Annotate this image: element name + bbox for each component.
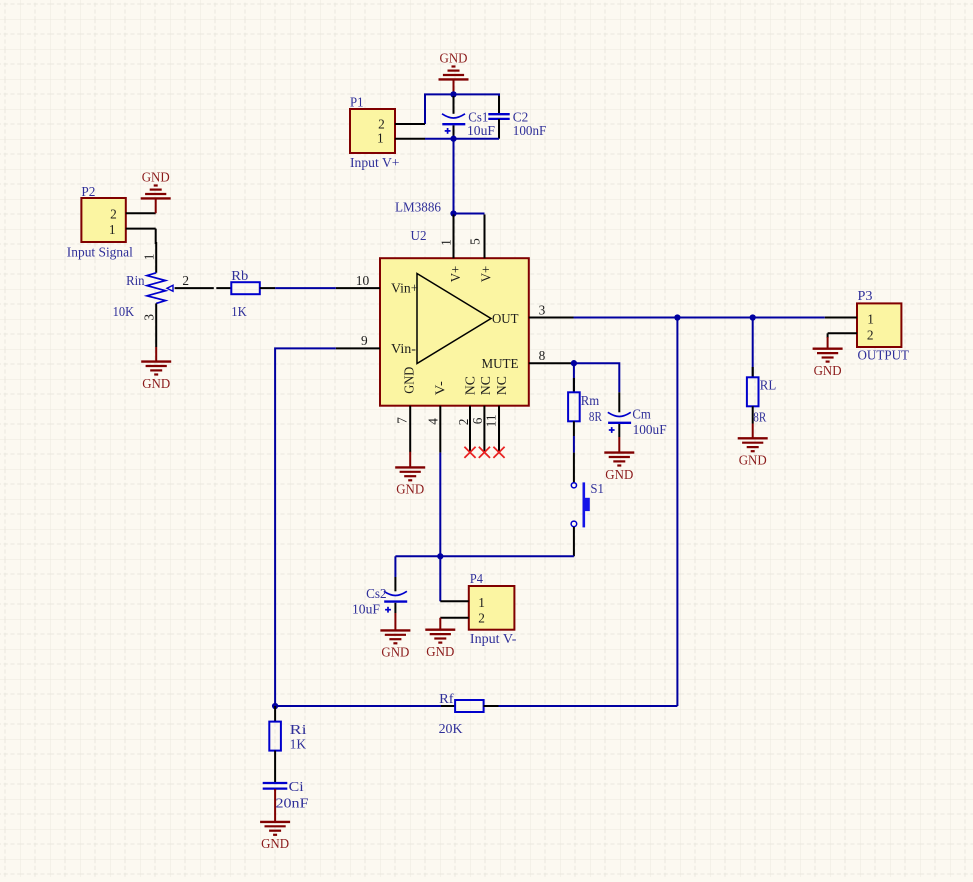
svg-text:2: 2 <box>478 610 485 625</box>
junction top rail / GND <box>450 91 456 97</box>
svg-text:1: 1 <box>867 311 874 326</box>
wire feedback bottom left <box>275 705 441 707</box>
wire U2 pin 9 to feedback node <box>275 348 336 706</box>
capacitor Cs1 <box>442 96 465 138</box>
capacitor C2 <box>488 96 509 139</box>
pin number 1 of Rin <box>141 254 156 261</box>
connector P2 <box>81 198 155 242</box>
junction Cs1 bottom rail <box>450 136 456 142</box>
no-connect mark pin 11 <box>493 447 504 458</box>
pin number 1 of P4 <box>478 595 485 610</box>
svg-text:5: 5 <box>468 238 483 245</box>
svg-text:11: 11 <box>484 414 499 427</box>
comment LM3886 <box>395 199 441 214</box>
svg-text:GND: GND <box>142 376 170 391</box>
resistor Rf <box>441 700 499 712</box>
op-amp U2 LM3886 body <box>380 258 529 406</box>
wire bottom V+ rail <box>425 138 499 140</box>
pin number 2 of P1 <box>378 117 385 132</box>
designator RL <box>760 377 777 392</box>
designator P1 <box>350 95 364 110</box>
node V+ pins split <box>450 210 484 216</box>
ground GND at Rin pin 3 <box>141 347 171 391</box>
value 10uF of Cs2 <box>352 602 380 617</box>
ground GND at Ci <box>260 789 290 851</box>
ground GND at P2 pin 2 <box>141 169 171 213</box>
label C2 <box>513 109 529 124</box>
designator Rf <box>439 691 454 706</box>
designator Ri <box>290 722 307 737</box>
svg-text:MUTE: MUTE <box>482 356 519 371</box>
svg-text:1: 1 <box>377 130 384 145</box>
value 8R of Rm <box>589 409 602 424</box>
svg-text:20K: 20K <box>439 721 463 736</box>
svg-text:GND: GND <box>142 169 170 184</box>
junction OUT / feedback <box>674 314 680 320</box>
svg-text:10uF: 10uF <box>467 123 495 138</box>
svg-text:100uF: 100uF <box>633 422 667 437</box>
pin 6 NC of U2 <box>483 406 485 452</box>
pin number 2 of P3 <box>867 327 874 342</box>
svg-text:GND: GND <box>381 645 409 660</box>
ground GND at RL <box>738 424 768 468</box>
value 10K of Rin <box>113 304 135 319</box>
svg-text:9: 9 <box>361 333 368 348</box>
pin number 2 of Rin <box>182 273 189 288</box>
junction OUT / RL <box>750 314 756 320</box>
capacitor Ci <box>263 783 288 791</box>
value 100uF of Cm <box>633 422 667 437</box>
pin name GND (U2) <box>401 366 416 393</box>
no-connect mark pin 6 <box>479 447 490 458</box>
svg-text:Rf: Rf <box>439 691 454 706</box>
svg-text:P1: P1 <box>350 95 364 110</box>
wire S1 to V- net <box>395 555 574 557</box>
pin name NC (pin6) <box>478 376 493 395</box>
designator Rin <box>126 273 145 288</box>
designator P3 <box>858 288 873 303</box>
svg-text:Ci: Ci <box>289 779 304 794</box>
value 10uF of Cs1 <box>467 123 495 138</box>
pin name Vin- <box>391 341 416 356</box>
svg-text:OUTPUT: OUTPUT <box>858 347 910 362</box>
wire P2 pin1 to Rin <box>155 229 158 273</box>
pin 10 Vin+ of U2 <box>336 287 380 289</box>
label Cs1 <box>468 109 488 124</box>
svg-text:Rm: Rm <box>581 393 600 408</box>
svg-text:GND: GND <box>426 644 454 659</box>
designator Cm <box>632 406 651 421</box>
value 20K of Rf <box>439 721 463 736</box>
pin number 2 of P4 <box>478 610 485 625</box>
svg-text:10uF: 10uF <box>352 602 380 617</box>
designator S1 <box>590 481 604 496</box>
ground GND at Cs2 <box>380 613 410 660</box>
label Input V+ <box>350 155 400 170</box>
svg-text:3: 3 <box>539 302 546 317</box>
junction feedback / Ri <box>272 703 278 709</box>
svg-text:GND: GND <box>739 453 767 468</box>
pin name V- <box>433 381 448 395</box>
svg-text:Ri: Ri <box>290 722 307 737</box>
pin name V+ (pin5) <box>478 266 493 283</box>
value 8R of RL <box>753 409 766 424</box>
svg-text:2: 2 <box>182 273 189 288</box>
svg-text:NC: NC <box>478 376 493 395</box>
designator P2 <box>81 184 95 199</box>
pin number 11 of U2 <box>484 414 499 427</box>
wire OUT net <box>574 317 825 319</box>
designator Ci <box>289 779 304 794</box>
svg-text:1K: 1K <box>290 736 307 751</box>
pin number 1 of P1 <box>377 130 384 145</box>
svg-text:Input V+: Input V+ <box>350 155 400 170</box>
pin number 10 of U2 <box>356 273 370 288</box>
pin number 9 of U2 <box>361 333 368 348</box>
svg-text:U2: U2 <box>411 228 427 243</box>
ground GND (top, net V+ rail) <box>439 50 469 94</box>
resistor Rb <box>216 282 275 294</box>
wire U2 pin 4 V- drop <box>439 453 441 602</box>
pin number 1 of P3 <box>867 311 874 326</box>
pin number 2 of P2 <box>110 206 117 221</box>
svg-text:1: 1 <box>478 595 485 610</box>
value 20nF of Ci <box>276 796 309 811</box>
svg-text:1K: 1K <box>231 304 247 319</box>
pin name Vin+ <box>391 281 419 296</box>
pin number 1 of U2 <box>439 239 454 246</box>
potentiometer Rin <box>147 273 214 347</box>
svg-text:Input Signal: Input Signal <box>67 244 133 259</box>
connector P1 <box>350 109 425 153</box>
pin 2 NC of U2 <box>469 406 471 452</box>
svg-text:7: 7 <box>394 417 409 424</box>
resistor Rm <box>568 363 580 452</box>
pin 8 MUTE of U2 <box>529 362 574 364</box>
svg-text:OUT: OUT <box>492 311 519 326</box>
svg-text:V+: V+ <box>448 266 463 283</box>
pin number 4 of U2 <box>426 418 441 425</box>
svg-text:Vin-: Vin- <box>391 341 416 356</box>
designator Rb <box>231 268 248 283</box>
ground GND at P3 pin 2 <box>813 337 843 378</box>
wire feedback drop <box>676 318 678 707</box>
no-connect mark pin 2 <box>464 447 475 458</box>
svg-text:Cm: Cm <box>632 406 651 421</box>
svg-text:1: 1 <box>439 239 454 246</box>
pin name NC (pin11) <box>494 376 509 395</box>
svg-text:P4: P4 <box>470 571 483 586</box>
pin number 2 of U2 <box>456 419 471 426</box>
svg-text:GND: GND <box>440 50 468 65</box>
connector P4 <box>440 586 514 630</box>
pin number 5 of U2 <box>468 238 483 245</box>
junction MUTE / Rm <box>571 360 577 366</box>
pin number 1 of P2 <box>109 222 116 237</box>
svg-text:V-: V- <box>433 381 448 395</box>
designator Cs2 <box>366 586 387 601</box>
svg-text:1: 1 <box>141 254 156 261</box>
svg-text:2: 2 <box>456 419 471 426</box>
wire feedback bottom right <box>499 705 678 707</box>
svg-text:2: 2 <box>110 206 117 221</box>
svg-text:4: 4 <box>426 418 441 425</box>
designator Rm <box>581 393 600 408</box>
svg-text:RL: RL <box>760 377 777 392</box>
svg-text:20nF: 20nF <box>276 796 309 811</box>
resistor Ri <box>269 706 281 782</box>
capacitor Cs2 <box>384 556 407 613</box>
svg-text:P2: P2 <box>81 184 95 199</box>
capacitor Cm <box>608 392 631 437</box>
svg-text:NC: NC <box>494 376 509 395</box>
svg-text:10K: 10K <box>113 304 135 319</box>
resistor RL <box>747 318 759 424</box>
svg-text:Rb: Rb <box>231 268 248 283</box>
value 1K of Rb <box>231 304 247 319</box>
switch S1 <box>571 453 590 557</box>
pin 3 OUT of U2 <box>529 317 574 319</box>
svg-text:S1: S1 <box>590 481 604 496</box>
designator U2 <box>411 228 427 243</box>
wire Rb to U2 pin 10 <box>275 287 336 289</box>
svg-text:10: 10 <box>356 273 370 288</box>
wire MUTE net <box>574 363 619 392</box>
pin name MUTE <box>482 356 519 371</box>
svg-text:Input V-: Input V- <box>470 631 517 646</box>
pin 7 GND of U2 <box>409 406 411 453</box>
label Input Signal <box>67 244 133 259</box>
svg-text:P3: P3 <box>858 288 873 303</box>
svg-text:1: 1 <box>109 222 116 237</box>
svg-text:NC: NC <box>463 376 478 395</box>
svg-text:8: 8 <box>539 348 546 363</box>
wire V+ drop to U2 <box>453 139 455 214</box>
pin number 7 of U2 <box>394 417 409 424</box>
svg-text:LM3886: LM3886 <box>395 199 441 214</box>
pin 11 NC of U2 <box>498 406 500 452</box>
label Input V- <box>470 631 517 646</box>
svg-text:GND: GND <box>401 366 416 393</box>
svg-text:Vin+: Vin+ <box>391 281 419 296</box>
junction V- / S1 wire <box>437 553 443 559</box>
svg-text:V+: V+ <box>478 266 493 283</box>
pin 1 V+ of U2 <box>453 215 455 259</box>
wire top rail V+ <box>425 94 499 124</box>
ground GND at P4 pin 2 <box>425 618 455 659</box>
pin number 8 of U2 <box>539 348 546 363</box>
svg-text:3: 3 <box>141 314 156 321</box>
pin 9 Vin- of U2 <box>336 347 380 349</box>
svg-text:Rin: Rin <box>126 273 145 288</box>
svg-text:100nF: 100nF <box>513 123 547 138</box>
svg-text:GND: GND <box>605 467 633 482</box>
value 100nF of C2 <box>513 123 547 138</box>
pin 5 V+ of U2 <box>484 215 486 259</box>
svg-text:2: 2 <box>867 327 874 342</box>
connector P3 <box>825 303 902 347</box>
value 1K of Ri <box>290 736 307 751</box>
ground GND at U2 pin 7 <box>395 452 425 497</box>
svg-text:Cs2: Cs2 <box>366 586 387 601</box>
ground GND at Cm <box>604 437 634 482</box>
pin 4 V- of U2 <box>439 406 441 453</box>
svg-text:GND: GND <box>261 836 289 851</box>
pin name OUT <box>492 311 519 326</box>
pin number 3 of U2 <box>539 302 546 317</box>
label OUTPUT <box>858 347 910 362</box>
pin name V+ (pin1) <box>448 266 463 283</box>
svg-text:GND: GND <box>396 482 424 497</box>
pin number 3 of Rin <box>141 314 156 321</box>
svg-text:8R: 8R <box>753 409 766 424</box>
svg-text:8R: 8R <box>589 409 602 424</box>
pin name NC (pin2) <box>463 376 478 395</box>
designator P4 <box>470 571 483 586</box>
svg-text:GND: GND <box>814 363 842 378</box>
pin number 6 of U2 <box>470 417 485 424</box>
